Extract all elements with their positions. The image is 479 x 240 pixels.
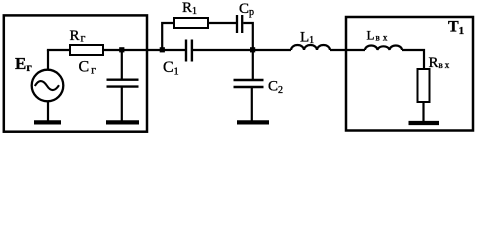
node B (C2 / Cp junction)	[250, 47, 255, 52]
node at Cг	[119, 47, 124, 52]
source Eг (AC generator)	[32, 70, 64, 102]
capacitor C1	[185, 40, 187, 62]
wire: node B down to C2	[252, 50, 254, 79]
wire: Rг to C1	[103, 49, 185, 51]
resistor Rг	[70, 45, 103, 55]
resistor R1	[174, 18, 208, 28]
transistor input box T1 (right enclosure)	[346, 17, 473, 131]
wire: source top to main line	[47, 50, 49, 70]
svg-text:Rг: Rг	[70, 28, 86, 45]
resistor Rвх (vertical)	[418, 69, 430, 102]
wire: C1 to L1	[193, 49, 291, 51]
wire: Cг to ground	[121, 87, 123, 121]
ground under Rвх	[409, 121, 440, 125]
wire: Cp down to main line	[243, 23, 253, 50]
wire: R1 to Cp	[208, 22, 236, 24]
inductor Lвх	[365, 46, 402, 50]
capacitor Cг	[107, 78, 139, 80]
ground under C2	[237, 120, 269, 124]
wire: node down to Cг	[121, 50, 123, 79]
inductor L1	[291, 45, 330, 50]
capacitor C2	[234, 79, 264, 81]
wire: C2 to ground	[251, 87, 253, 121]
node A (branch to R1)	[160, 47, 165, 52]
ground under Eг	[34, 120, 61, 124]
wire: Lвх to Rвх	[402, 50, 424, 69]
wire: branch up from node A	[162, 23, 174, 50]
wire: L1 into T1 box	[330, 49, 365, 51]
generator box (left enclosure)	[4, 15, 147, 131]
capacitor Cp	[236, 15, 238, 33]
wire: source bottom to ground	[47, 101, 49, 121]
wire: Rвх to ground	[422, 102, 424, 122]
ground under Cг	[106, 120, 139, 124]
wire: main line to Rг	[47, 49, 70, 51]
